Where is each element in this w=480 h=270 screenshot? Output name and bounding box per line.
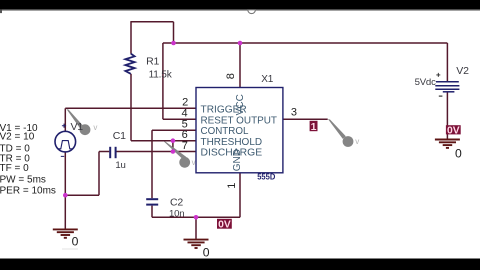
svg-text:v: v bbox=[355, 137, 359, 146]
svg-text:RESET OUTPUT: RESET OUTPUT bbox=[201, 115, 278, 126]
svg-text:7: 7 bbox=[182, 140, 188, 152]
svg-text:3: 3 bbox=[291, 106, 297, 118]
svg-text:0: 0 bbox=[72, 235, 79, 249]
svg-text:555D: 555D bbox=[257, 173, 275, 182]
svg-text:0: 0 bbox=[455, 147, 462, 161]
svg-text:V2: V2 bbox=[456, 65, 469, 77]
svg-text:10n: 10n bbox=[169, 209, 184, 220]
svg-text:VCC: VCC bbox=[235, 94, 246, 115]
svg-text:8: 8 bbox=[225, 73, 237, 79]
svg-text:C1: C1 bbox=[113, 130, 126, 142]
svg-text:R1: R1 bbox=[146, 55, 159, 67]
svg-text:1: 1 bbox=[311, 121, 317, 133]
svg-text:CONTROL: CONTROL bbox=[201, 126, 249, 137]
svg-text:v: v bbox=[192, 158, 196, 167]
svg-text:X1: X1 bbox=[261, 74, 273, 85]
svg-text:0V: 0V bbox=[218, 219, 231, 230]
svg-text:11.5k: 11.5k bbox=[149, 69, 173, 80]
svg-text:0V: 0V bbox=[447, 125, 460, 136]
svg-text:1u: 1u bbox=[115, 160, 125, 171]
svg-text:PW = 5ms: PW = 5ms bbox=[0, 174, 46, 185]
svg-text:1: 1 bbox=[226, 183, 238, 189]
svg-text:GND: GND bbox=[232, 149, 243, 171]
svg-text:V2 = 10: V2 = 10 bbox=[0, 131, 35, 142]
svg-text:0: 0 bbox=[203, 246, 210, 260]
svg-text:C2: C2 bbox=[170, 196, 183, 208]
svg-text:V1: V1 bbox=[71, 121, 84, 133]
svg-text:5Vdc: 5Vdc bbox=[415, 77, 436, 88]
svg-text:TF = 0: TF = 0 bbox=[0, 163, 29, 174]
svg-text:THRESHOLD: THRESHOLD bbox=[201, 137, 263, 148]
svg-text:PER = 10ms: PER = 10ms bbox=[0, 185, 56, 196]
svg-text:v: v bbox=[93, 123, 97, 132]
